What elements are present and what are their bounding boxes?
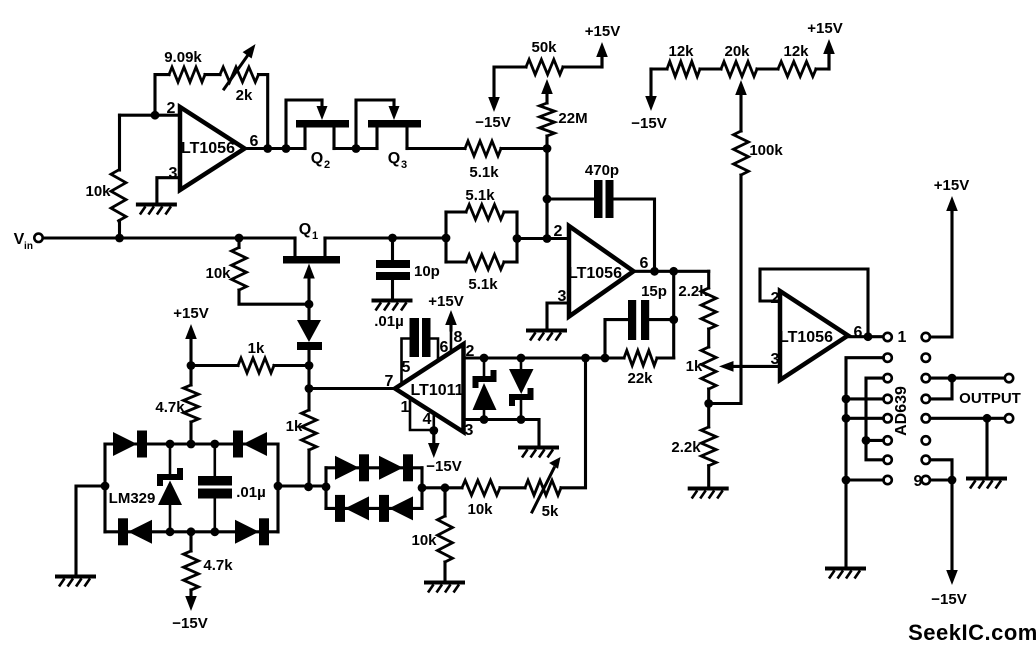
- svg-text:6: 6: [440, 339, 449, 356]
- node bias top: [187, 361, 196, 370]
- wire U1 output to Q2: [245, 147, 305, 150]
- wire row7 to -15V bus: [930, 460, 952, 480]
- supply -15V arrow (U4 pin4): [428, 443, 440, 458]
- diode pack frame: [324, 468, 327, 509]
- svg-text:2: 2: [771, 290, 780, 307]
- svg-text:12k: 12k: [783, 43, 809, 60]
- wire main Vin line: [43, 236, 295, 239]
- potentiometer R16 1k: [707, 329, 710, 347]
- svg-text:+15V: +15V: [428, 293, 463, 310]
- potentiometer R6 50k: [526, 60, 563, 75]
- svg-text:2.2k: 2.2k: [671, 439, 701, 456]
- svg-text:3: 3: [401, 159, 407, 171]
- svg-text:V: V: [14, 231, 25, 248]
- trimmer R24 5k: [525, 480, 561, 495]
- svg-text:LT1056: LT1056: [181, 140, 235, 157]
- wire R9-R10: [757, 67, 778, 70]
- capacitor C3 15p: [628, 300, 636, 340]
- wire 50k right to +15V: [563, 55, 602, 67]
- node 10k divider: [441, 483, 450, 492]
- ground C1: [372, 299, 413, 303]
- AD639 left pin circle row4: [883, 395, 891, 403]
- AD639 right pin circle row4: [922, 395, 930, 403]
- wire +15V to right row1: [930, 210, 952, 337]
- wire left bus B (rows 3,6,7): [866, 378, 883, 460]
- AD639 right pin circle row2: [922, 354, 930, 362]
- wire R23 to 5k: [500, 486, 525, 489]
- node bridge top 4.7k: [187, 440, 196, 449]
- wire 5k up to U4 pin2 line: [561, 358, 586, 488]
- svg-text:10k: 10k: [467, 501, 493, 518]
- svg-text:LT1056: LT1056: [568, 265, 622, 282]
- diode D10: [335, 495, 345, 522]
- transistor Q1: [283, 256, 340, 264]
- wire bridge right to diode pack: [278, 484, 326, 487]
- diode D3: [307, 304, 310, 320]
- svg-text:10k: 10k: [85, 183, 111, 200]
- svg-text:2: 2: [554, 223, 563, 240]
- wire 50k left to -15V: [494, 67, 526, 99]
- resistor R1 9.09k: [169, 67, 205, 82]
- svg-text:3: 3: [771, 351, 780, 368]
- node U4 output junction: [305, 384, 314, 393]
- ground R22: [424, 581, 465, 585]
- supply -15V arrow (bridge): [185, 596, 197, 611]
- ground bridge: [55, 575, 96, 579]
- ground output: [966, 477, 1007, 481]
- svg-text:OUTPUT: OUTPUT: [959, 390, 1021, 407]
- resistor R20 4.7k: [189, 366, 192, 386]
- svg-text:100k: 100k: [749, 142, 783, 159]
- wire U4 pin3 line: [464, 420, 540, 447]
- node U4 pin4: [429, 426, 438, 435]
- resistor R7 22M: [540, 103, 555, 136]
- ground U1 pin3: [136, 203, 177, 207]
- wire pack to 10k: [422, 486, 462, 489]
- svg-text:20k: 20k: [724, 43, 750, 60]
- AD639 right pin circle row6: [922, 436, 930, 444]
- svg-text:1: 1: [312, 230, 318, 242]
- node busA row4: [842, 395, 851, 404]
- op-amp U1 LT1056: [180, 107, 245, 190]
- wire U4 pin2 line: [464, 356, 625, 359]
- svg-text:+15V: +15V: [585, 23, 620, 40]
- AD639 right pin circle row8: [922, 476, 930, 484]
- node parallel left: [442, 234, 451, 243]
- node main-R3: [115, 234, 124, 243]
- svg-text:1k: 1k: [286, 418, 303, 435]
- svg-text:5: 5: [402, 359, 411, 376]
- bridge frame: [105, 442, 278, 445]
- wire output bottom (row5): [930, 417, 1005, 420]
- resistor R5 5.1k: [465, 141, 501, 156]
- supply +15V arrow (U4 pin8): [450, 324, 453, 352]
- wire 100k down to 1k pot bottom: [709, 175, 741, 404]
- node output bottom: [983, 414, 992, 423]
- op-amp U3 LT1056: [780, 291, 848, 380]
- svg-text:−15V: −15V: [426, 458, 461, 475]
- node 470p tap: [543, 234, 552, 243]
- svg-text:LT1011: LT1011: [410, 382, 463, 399]
- AD639 left pin circle row8: [883, 476, 891, 484]
- wire feedback to U1 output: [259, 75, 268, 149]
- resistor R19 1k vertical: [307, 389, 310, 411]
- supply +15V arrow (AD639): [946, 196, 958, 211]
- svg-text:5.1k: 5.1k: [465, 187, 495, 204]
- svg-text:+15V: +15V: [173, 305, 208, 322]
- svg-text:Q: Q: [299, 221, 311, 238]
- svg-text:3: 3: [465, 422, 474, 439]
- svg-text:6: 6: [854, 324, 863, 341]
- diode D6 bottom-left: [118, 518, 128, 545]
- node bridge left: [101, 482, 110, 491]
- node pack left: [322, 482, 331, 491]
- node -15V bus: [948, 476, 957, 485]
- svg-text:Q: Q: [311, 150, 323, 167]
- svg-text:LT1056: LT1056: [779, 329, 833, 346]
- svg-text:9: 9: [914, 473, 923, 490]
- svg-text:1k: 1k: [248, 340, 265, 357]
- wire branch down to 15p: [672, 271, 675, 358]
- resistor R11 100k: [734, 131, 749, 175]
- node Q1 gate: [305, 300, 314, 309]
- node 1k bottom: [704, 399, 713, 408]
- svg-text:5k: 5k: [542, 503, 559, 520]
- diode D8: [335, 456, 359, 480]
- svg-text:in: in: [24, 241, 33, 252]
- wire Q1 to 10p node: [325, 236, 446, 239]
- svg-text:10p: 10p: [414, 263, 440, 280]
- node main-R4: [235, 234, 244, 243]
- AD639 right pin circle row7: [922, 456, 930, 464]
- wire U2 pin3 to ground: [547, 303, 569, 329]
- node cap bottom: [210, 527, 219, 536]
- wire C2 to U2 output: [614, 199, 655, 271]
- svg-text:3: 3: [169, 165, 178, 182]
- capacitor C2 470p: [547, 199, 594, 239]
- svg-text:12k: 12k: [668, 43, 694, 60]
- wire U2 output: [634, 270, 709, 273]
- resistor R14 22k: [624, 351, 657, 366]
- resistor R12 5.1k top: [444, 212, 447, 262]
- svg-text:−15V: −15V: [172, 615, 207, 632]
- node D3 bottom: [305, 361, 314, 370]
- wire U1 pin2 to feedback: [120, 114, 181, 117]
- node 15p left tap: [601, 354, 610, 363]
- resistor R13 5.1k bottom: [446, 260, 466, 263]
- wire D3 node down: [307, 366, 310, 389]
- svg-text:SeekIC.com: SeekIC.com: [908, 620, 1036, 645]
- node cap top: [210, 440, 219, 449]
- svg-text:−15V: −15V: [931, 591, 966, 608]
- AD639 right pin circle row1: [922, 333, 930, 341]
- capacitor C4 .01u bypass: [402, 339, 410, 384]
- supply -15V arrow (50k): [488, 97, 500, 112]
- zener LM329: [169, 444, 172, 474]
- U3 feedback loop: [760, 269, 868, 337]
- wiper arrow 50k: [541, 79, 553, 94]
- supply +15V arrow (50k): [596, 42, 608, 57]
- node bridge right: [274, 482, 283, 491]
- diode D5 top-right: [233, 431, 243, 458]
- svg-text:9.09k: 9.09k: [164, 49, 202, 66]
- AD639 left pin circle row6: [883, 436, 891, 444]
- svg-text:1k: 1k: [686, 358, 703, 375]
- svg-text:6: 6: [640, 255, 649, 272]
- diode D9: [379, 456, 403, 480]
- AD639 left pin circle row3: [883, 374, 891, 382]
- supply +15V arrow (12k): [823, 39, 835, 54]
- wire U1 pin3: [157, 178, 180, 203]
- svg-text:50k: 50k: [531, 39, 557, 56]
- comparator U4 LT1011: [395, 344, 464, 432]
- node 15p right: [669, 315, 678, 324]
- svg-text:10k: 10k: [411, 532, 437, 549]
- svg-text:.01µ: .01µ: [236, 484, 266, 501]
- svg-text:LM329: LM329: [109, 490, 156, 507]
- svg-text:+15V: +15V: [934, 177, 969, 194]
- node U1 pin2: [151, 111, 160, 120]
- zener D2: [520, 358, 523, 369]
- svg-text:−15V: −15V: [631, 115, 666, 132]
- node zener bottom: [166, 527, 175, 536]
- wiper arrow 20k: [735, 80, 747, 95]
- terminal output bottom: [1005, 414, 1013, 422]
- AD639 left pin circle row2: [883, 354, 891, 362]
- node D1 bottom: [480, 415, 489, 424]
- AD639 left pin circle row1: [883, 333, 891, 341]
- trimmer arrow R2: [224, 55, 248, 89]
- node busA row8: [842, 476, 851, 485]
- wire 22M node down to 470p node: [545, 149, 548, 239]
- resistor R23 10k: [462, 480, 500, 495]
- wire Q3 to R5: [407, 147, 465, 150]
- svg-text:4: 4: [423, 411, 432, 428]
- node busA row5: [842, 414, 851, 423]
- AD639 left pin circle row7: [883, 456, 891, 464]
- terminal output top: [1005, 374, 1013, 382]
- node 15p branch: [669, 267, 678, 276]
- resistor R17 2.2k lower: [701, 427, 716, 466]
- resistor R21 4.7k lower: [189, 532, 192, 551]
- resistor R15 2.2k: [707, 271, 710, 288]
- wire Q2 to Q3: [334, 147, 377, 150]
- svg-text:5.1k: 5.1k: [469, 164, 499, 181]
- svg-text:470p: 470p: [585, 162, 619, 179]
- transistor Q3: [368, 120, 421, 128]
- supply -15V arrow (12k): [645, 96, 657, 111]
- ground R17: [688, 487, 729, 491]
- node 10p tap: [388, 234, 397, 243]
- op-amp U2 LT1056: [569, 226, 634, 317]
- wire bridge left to ground: [76, 486, 105, 575]
- resistor R10 12k: [778, 62, 816, 77]
- supply +15V arrow (bias): [185, 324, 197, 339]
- svg-text:15p: 15p: [641, 283, 667, 300]
- wire 12k to +15V: [816, 55, 829, 69]
- capacitor C1 10p: [391, 238, 394, 260]
- wire U3 output: [848, 335, 883, 338]
- node parallel right: [513, 234, 522, 243]
- ground zeners: [518, 446, 559, 450]
- trimmer arrow 5k: [532, 468, 554, 512]
- node R19 bottom: [304, 482, 313, 491]
- trimmer R2 2k: [220, 67, 259, 82]
- svg-text:8: 8: [454, 329, 463, 346]
- node pack right: [418, 483, 427, 492]
- node Q3 gate tap: [352, 144, 361, 153]
- svg-text:22M: 22M: [558, 110, 587, 127]
- node zener D2 tap: [517, 354, 526, 363]
- node zener top: [166, 440, 175, 449]
- gate arrow Q1: [303, 264, 315, 279]
- svg-text:Q: Q: [388, 150, 400, 167]
- node 22M junction: [543, 144, 552, 153]
- svg-text:.01µ: .01µ: [374, 313, 404, 330]
- diode D11: [379, 495, 389, 522]
- wire between R1 and R2: [205, 73, 220, 76]
- node feedback-output: [263, 144, 272, 153]
- node Q2 gate tap: [282, 144, 291, 153]
- resistor R8 12k: [651, 67, 667, 70]
- wire output ground: [985, 418, 988, 477]
- ground U2 pin3: [526, 329, 567, 333]
- wire to U2 pin2: [517, 237, 569, 240]
- node 470p-output: [650, 267, 659, 276]
- wire left bus A (rows 2,4,5,8): [846, 358, 883, 567]
- resistor R18 1k: [191, 364, 238, 367]
- wire R5 to 22M node: [501, 147, 547, 150]
- capacitor C5 .01u: [214, 444, 217, 476]
- svg-text:2k: 2k: [236, 87, 253, 104]
- wire output top (rows 3,4): [930, 377, 1005, 380]
- ground busA: [825, 567, 866, 571]
- svg-text:4.7k: 4.7k: [155, 399, 185, 416]
- node output top: [948, 374, 957, 383]
- zener D1: [483, 358, 486, 376]
- node bridge bottom 4.7k: [187, 527, 196, 536]
- wire U4 output: [309, 387, 395, 390]
- wire row8 to -15V: [930, 480, 952, 571]
- AD639 right pin circle row3: [922, 374, 930, 382]
- resistor R4 10k: [237, 238, 240, 248]
- svg-text:22k: 22k: [627, 370, 653, 387]
- svg-text:10k: 10k: [205, 265, 231, 282]
- svg-text:1: 1: [898, 329, 907, 346]
- AD639 left pin circle row5: [883, 414, 891, 422]
- svg-text:4.7k: 4.7k: [203, 557, 233, 574]
- transistor Q2: [296, 120, 349, 128]
- svg-text:1: 1: [401, 399, 410, 416]
- wire -15V to 12k: [649, 69, 652, 97]
- node 5k riser tap: [581, 354, 590, 363]
- svg-text:2: 2: [324, 159, 330, 171]
- supply -15V arrow (AD639): [946, 570, 958, 585]
- wire R8-R9: [700, 67, 721, 70]
- diode D7 bottom-right: [235, 520, 259, 544]
- node zener D1 tap: [480, 354, 489, 363]
- resistor R22 10k to ground: [443, 488, 446, 516]
- svg-text:5.1k: 5.1k: [468, 276, 498, 293]
- node busB row6: [862, 436, 871, 445]
- resistor R3 10k: [118, 115, 121, 170]
- potentiometer R9 20k: [721, 62, 757, 77]
- svg-text:AD639: AD639: [893, 386, 910, 436]
- diode D4 top-left: [113, 432, 137, 456]
- wiper arrow 1k to U3 pin3: [733, 365, 780, 368]
- AD639 right pin circle row5: [922, 414, 930, 422]
- node D2 bottom: [517, 415, 526, 424]
- svg-text:+15V: +15V: [807, 20, 842, 37]
- svg-text:−15V: −15V: [475, 114, 510, 131]
- svg-text:2.2k: 2.2k: [678, 283, 708, 300]
- U4 pins 1-4 wire: [410, 398, 434, 430]
- node U3 output: [864, 332, 873, 341]
